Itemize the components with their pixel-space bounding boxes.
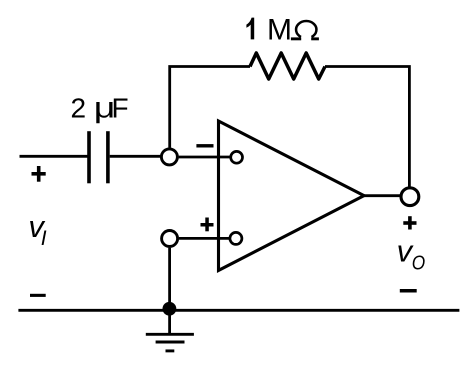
svg-text:F: F (112, 93, 129, 124)
svg-text:O: O (412, 252, 426, 275)
svg-text:2: 2 (71, 93, 87, 124)
svg-text:I: I (41, 227, 47, 250)
svg-text:M: M (267, 13, 292, 46)
